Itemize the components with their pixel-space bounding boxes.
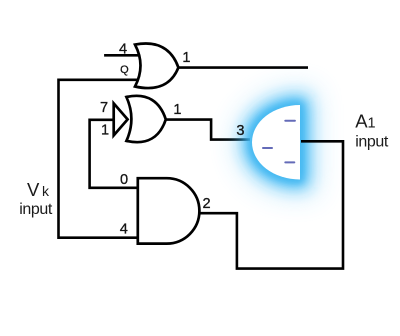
svg-text:1: 1 xyxy=(173,102,181,118)
svg-text:2: 2 xyxy=(202,196,210,212)
svg-text:k: k xyxy=(42,183,50,199)
svg-text:1: 1 xyxy=(101,122,109,138)
svg-text:1: 1 xyxy=(368,115,376,131)
svg-text:0: 0 xyxy=(120,172,128,188)
svg-text:V: V xyxy=(27,179,40,200)
svg-text:3: 3 xyxy=(236,123,244,139)
svg-text:4: 4 xyxy=(120,221,128,237)
svg-text:Q: Q xyxy=(120,64,129,76)
svg-text:A: A xyxy=(355,110,368,131)
svg-text:7: 7 xyxy=(100,100,108,116)
svg-text:4: 4 xyxy=(119,41,127,57)
svg-text:1: 1 xyxy=(182,50,190,66)
svg-text:input: input xyxy=(19,201,53,218)
svg-text:input: input xyxy=(355,133,389,150)
